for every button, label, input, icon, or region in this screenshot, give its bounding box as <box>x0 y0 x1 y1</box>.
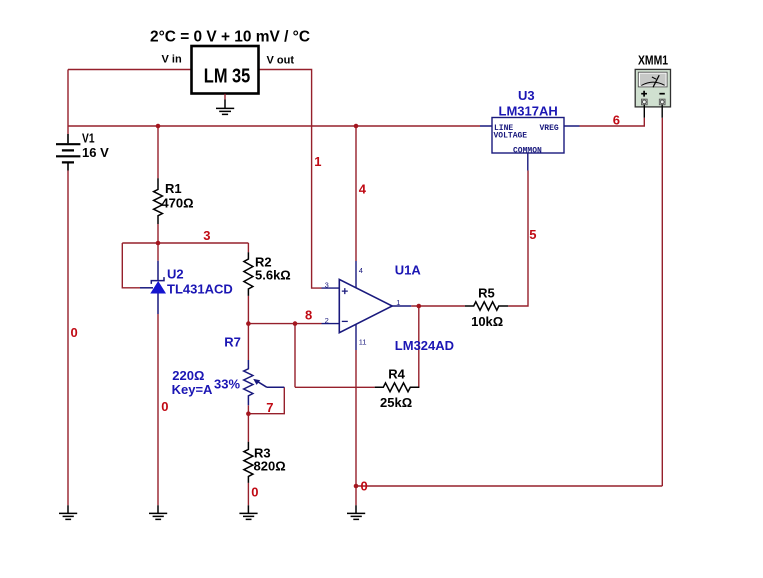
ground TL431 anode <box>149 505 167 519</box>
wire TL431 cathode stub <box>157 243 159 261</box>
battery V1 <box>56 134 80 171</box>
pot wiper arrowhead <box>253 379 260 385</box>
svg-text:U1A: U1A <box>395 263 422 278</box>
svg-text:220Ω: 220Ω <box>172 368 204 383</box>
svg-text:5.6kΩ: 5.6kΩ <box>255 267 291 282</box>
voltage regulator U3 LM317 box <box>480 118 580 171</box>
junction R2/R7 node 8 <box>246 321 251 326</box>
svg-text:U3: U3 <box>518 88 535 103</box>
junction node 0 bottom <box>354 484 359 489</box>
wire R3 top <box>247 414 249 442</box>
resistor R1 <box>154 178 163 224</box>
svg-text:V in: V in <box>162 53 182 65</box>
wire power bus net V1+ <box>68 125 480 127</box>
svg-text:0: 0 <box>161 399 168 414</box>
svg-text:0: 0 <box>71 325 78 340</box>
ground battery <box>59 505 77 519</box>
svg-text:6: 6 <box>613 112 620 127</box>
junction node 7 <box>246 411 251 416</box>
svg-text:R1: R1 <box>165 181 182 196</box>
svg-text:33%: 33% <box>214 376 240 391</box>
svg-text:LM 35: LM 35 <box>204 65 251 87</box>
wire net 3: R1 bottom, node wire and TL431 loop <box>122 224 248 288</box>
wire net 8: R2 bottom to op-amp minus, branch to R4 <box>248 296 374 387</box>
ground R3 <box>239 505 257 519</box>
svg-text:16 V: 16 V <box>82 145 109 160</box>
svg-text:LM317AH: LM317AH <box>499 103 558 118</box>
svg-text:0: 0 <box>251 485 258 500</box>
svg-text:VOLTAGE: VOLTAGE <box>494 131 528 140</box>
svg-text:5: 5 <box>529 227 536 242</box>
wire R7 top <box>247 324 249 360</box>
svg-text:11: 11 <box>359 338 367 347</box>
resistor R3 <box>244 442 253 483</box>
svg-text:470Ω: 470Ω <box>161 195 193 210</box>
op-amp U1A <box>322 261 412 350</box>
multimeter XMM1 <box>635 69 670 117</box>
wire TL431 anode to ground <box>157 314 159 505</box>
wire R1 top <box>157 126 159 178</box>
svg-text:7: 7 <box>266 400 273 415</box>
wire net 5: R5 right up to LM317 COMMON <box>508 171 528 307</box>
wire net 6: LM317 VREG to XMM1 plus <box>580 118 645 126</box>
potentiometer R7 <box>244 360 285 405</box>
svg-text:0: 0 <box>361 479 368 494</box>
svg-text:1: 1 <box>396 298 400 307</box>
junction bus/pin4 <box>354 124 359 129</box>
TL431 U2 <box>140 261 166 314</box>
ground under LM35 <box>216 100 234 115</box>
svg-text:U2: U2 <box>167 266 184 281</box>
wire R2 top <box>247 243 249 252</box>
wire net 4: bus down to op-amp pin 4 <box>355 126 357 261</box>
svg-text:3: 3 <box>325 281 329 290</box>
svg-text:3: 3 <box>203 228 210 243</box>
junction node 3 <box>156 241 161 246</box>
junction op-amp output <box>417 304 422 309</box>
svg-text:V out: V out <box>267 54 295 66</box>
wire LM35 ground stub <box>224 94 226 100</box>
wire net 1: LM35 Vout down to op-amp + input <box>259 70 322 289</box>
svg-text:4: 4 <box>359 182 367 197</box>
junction bus/R1 <box>156 124 161 129</box>
svg-text:10kΩ: 10kΩ <box>471 314 503 329</box>
wire Vin net: battery top to LM35 V in <box>68 70 192 135</box>
svg-text:LM324AD: LM324AD <box>395 338 454 353</box>
svg-text:R4: R4 <box>388 366 405 381</box>
svg-text:XMM1: XMM1 <box>638 53 668 68</box>
wire R3 bottom to ground <box>247 483 249 505</box>
svg-text:R5: R5 <box>478 285 495 300</box>
resistor R5 <box>465 302 508 310</box>
svg-text:8: 8 <box>305 308 312 323</box>
wire op-amp output to R5 and down to R4 <box>411 306 465 387</box>
wire net 0: op-amp pin 11 down, bottom bus to XMM1 minus <box>356 118 662 505</box>
svg-text:820Ω: 820Ω <box>254 458 286 473</box>
wire net 7: pot bottom and wiper loop <box>248 387 284 413</box>
svg-text:4: 4 <box>359 266 363 275</box>
svg-text:V1: V1 <box>82 131 95 146</box>
LM35 box <box>192 46 259 94</box>
svg-text:R7: R7 <box>224 335 241 350</box>
svg-text:VREG: VREG <box>540 124 559 133</box>
svg-text:1: 1 <box>314 154 321 169</box>
ground net 0 right <box>347 505 365 519</box>
wire net 0: battery minus down to ground <box>67 171 69 506</box>
svg-text:COMMON: COMMON <box>513 146 542 155</box>
svg-text:2: 2 <box>325 316 329 325</box>
resistor R4 <box>375 383 420 392</box>
resistor R2 <box>244 252 253 296</box>
svg-text:25kΩ: 25kΩ <box>380 395 412 410</box>
svg-text:2°C = 0 V + 10 mV / °C: 2°C = 0 V + 10 mV / °C <box>150 28 310 45</box>
svg-text:Key=A: Key=A <box>172 382 213 397</box>
junction node 8 branch <box>293 321 298 326</box>
svg-text:TL431ACD: TL431ACD <box>167 282 233 297</box>
